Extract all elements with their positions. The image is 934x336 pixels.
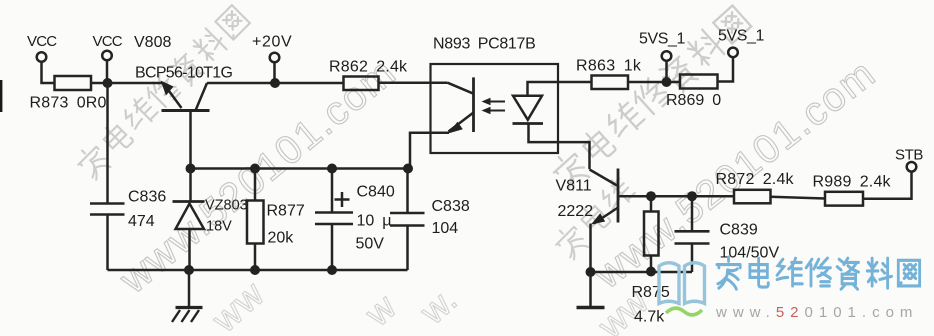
- wire node B up to 5VS_1: [665, 61, 668, 82]
- watermark faint fragments bottom: [203, 272, 657, 336]
- svg-text:VCC: VCC: [93, 33, 123, 50]
- wire R869 to 5VS_1 right: [718, 57, 734, 81]
- terminal 5VS_1 left: [662, 51, 672, 61]
- wire R862 to opto box: [379, 81, 448, 84]
- wire node A to V808 emitter: [108, 82, 164, 85]
- wire C836 to bottom bus: [106, 215, 109, 271]
- node B junction: [662, 77, 672, 87]
- wire opto emitter out to bus: [410, 133, 449, 169]
- svg-text:C839: C839: [720, 222, 758, 239]
- svg-text:10 μ: 10 μ: [357, 213, 392, 230]
- terminal +20V: [270, 53, 280, 63]
- resistor R862: [344, 77, 379, 91]
- wire VCC left to R873: [42, 62, 55, 83]
- svg-text:w.: w.: [411, 279, 464, 333]
- opto phototransistor bar: [472, 77, 475, 132]
- svg-text:R872 2.4k: R872 2.4k: [716, 171, 795, 188]
- capacitor C840 polarity plus: [335, 192, 350, 207]
- wire R863 to node B: [628, 81, 680, 84]
- svg-text:20k: 20k: [268, 230, 295, 247]
- top bus wire: [189, 167, 408, 170]
- wire V811 emitter down: [589, 224, 592, 273]
- bottom bus right wire: [591, 271, 693, 274]
- svg-text:R877: R877: [267, 203, 305, 220]
- resistor R877: [247, 169, 264, 271]
- watermark partial CJK row bottom middle: [551, 84, 728, 261]
- svg-text:50V: 50V: [356, 236, 385, 253]
- svg-text:474: 474: [128, 213, 155, 230]
- svg-text:STB: STB: [895, 147, 923, 164]
- wire R872 to R989: [771, 197, 826, 199]
- svg-text:C840: C840: [357, 184, 395, 201]
- wire R989 to STB: [863, 172, 912, 199]
- zener diode VZ803: [173, 169, 205, 271]
- wire LED cathode to V811 base: [529, 124, 590, 170]
- terminal STB: [907, 162, 917, 172]
- node A junction: [103, 78, 113, 88]
- ground left: [172, 270, 203, 322]
- terminal VCC left: [37, 52, 47, 62]
- opto phototransistor emitter: [448, 113, 474, 134]
- junction top bus at C838: [403, 164, 413, 174]
- node +20V junction: [270, 78, 280, 88]
- svg-text:R873 0R0: R873 0R0: [30, 95, 107, 112]
- wire V808 collector to +20V node: [207, 82, 275, 85]
- transistor V808: [161, 81, 210, 111]
- junction top bus at C840: [327, 164, 337, 174]
- svg-text:5VS_1: 5VS_1: [639, 31, 686, 48]
- svg-text:4.7k: 4.7k: [634, 309, 665, 326]
- logo CJK text blue: [717, 257, 920, 289]
- junction bus right at emitter: [586, 267, 596, 277]
- wire VCC right drop: [106, 60, 109, 83]
- junction bottom bus at C840: [327, 265, 337, 275]
- svg-text:ww: ww: [203, 272, 273, 336]
- opto light arrows: [482, 98, 506, 114]
- svg-text:R869 0: R869 0: [666, 92, 721, 109]
- opto LED D1: [513, 96, 544, 124]
- watermark diagonal CJK row left: [73, 3, 252, 182]
- wire V808 base down to top bus: [189, 111, 192, 169]
- svg-text:VCC: VCC: [27, 33, 57, 50]
- svg-text:www.520101.com: www.520101.com: [715, 304, 918, 321]
- resistor R875: [644, 196, 659, 272]
- wire node A down to C836: [106, 83, 109, 204]
- svg-text:5VS_1: 5VS_1: [718, 28, 765, 45]
- capacitor C836: [90, 204, 125, 215]
- wire LED anode to R863: [528, 82, 592, 96]
- opto phototransistor collector: [448, 83, 474, 94]
- svg-text:18V: 18V: [206, 219, 232, 235]
- watermark diagonal CJK row right: [548, 3, 753, 193]
- svg-text:w: w: [356, 285, 404, 334]
- wire +20V drop: [273, 62, 276, 83]
- logo book icon: [659, 263, 705, 304]
- svg-text:2222: 2222: [558, 203, 594, 220]
- svg-text:R862 2.4k: R862 2.4k: [329, 59, 408, 76]
- resistor R873: [55, 76, 92, 90]
- optocoupler N893 box: [431, 64, 559, 153]
- svg-text:C836: C836: [128, 189, 166, 206]
- junction collector at C839: [687, 191, 697, 201]
- capacitor C840: [315, 169, 353, 271]
- transistor V811: [590, 169, 619, 225]
- terminal VCC right: [102, 51, 112, 61]
- scan edge mark left border: [0, 80, 2, 112]
- junction bottom bus at R877: [250, 265, 260, 275]
- capacitor C839: [675, 196, 710, 272]
- junction top bus at R877: [250, 164, 260, 174]
- svg-text:R989 2.4k: R989 2.4k: [813, 174, 892, 191]
- svg-text:BCP56-10T1G: BCP56-10T1G: [135, 65, 232, 82]
- junction collector at R875: [646, 191, 656, 201]
- ground right: [577, 272, 605, 308]
- junction top bus at zener: [186, 164, 196, 174]
- resistor R863: [592, 76, 629, 90]
- terminal 5VS_1 right: [728, 48, 738, 58]
- wire V811 collector to R872: [618, 195, 734, 198]
- svg-text:V808: V808: [134, 34, 171, 51]
- capacitor C838: [390, 169, 425, 271]
- svg-text:V811: V811: [556, 178, 592, 195]
- svg-text:104: 104: [432, 220, 459, 237]
- wire R873 to node A: [91, 82, 108, 85]
- resistor R989: [825, 192, 863, 206]
- logo green squiggle: [666, 308, 702, 315]
- junction bottom bus at zener: [184, 265, 194, 275]
- svg-text:R863 1k: R863 1k: [576, 58, 642, 75]
- resistor R869: [680, 75, 718, 89]
- svg-text:+20V: +20V: [252, 34, 292, 51]
- svg-text:R875: R875: [632, 284, 670, 301]
- resistor R872: [734, 190, 771, 204]
- svg-text:VZ803: VZ803: [205, 198, 248, 214]
- svg-text:C838: C838: [432, 198, 470, 215]
- bottom bus wire: [108, 269, 408, 272]
- wire +20V node to R862: [275, 82, 344, 85]
- junction bus right at R875: [646, 267, 656, 277]
- svg-text:N893 PC817B: N893 PC817B: [433, 36, 536, 53]
